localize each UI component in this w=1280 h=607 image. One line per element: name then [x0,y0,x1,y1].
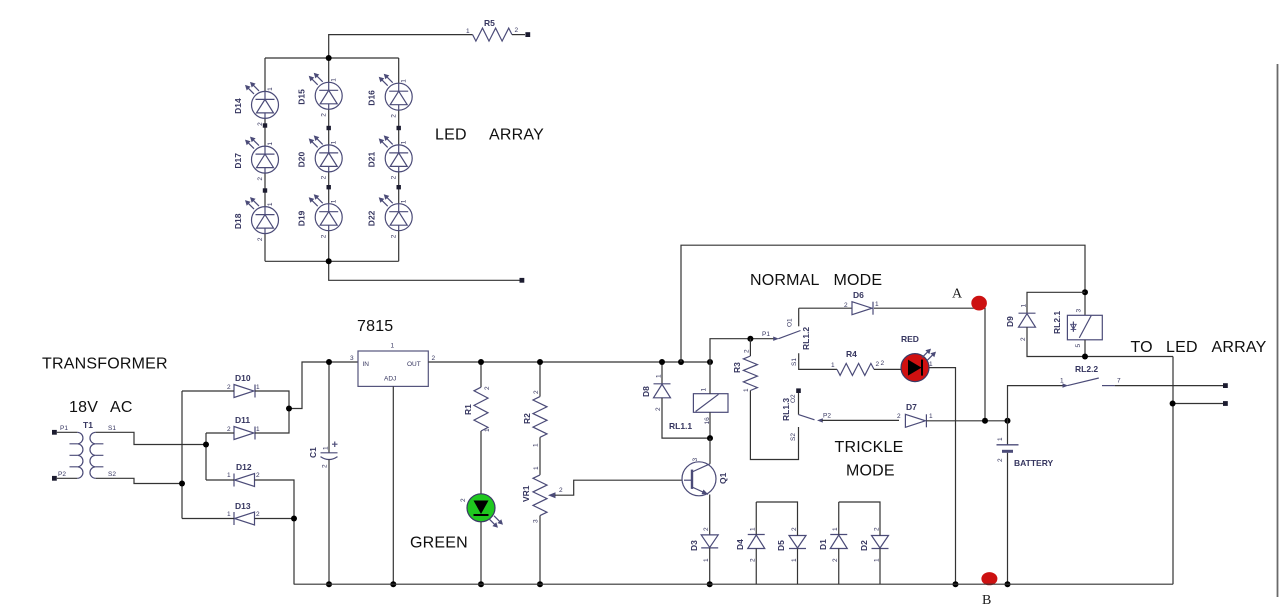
wire D12 pin1 [206,479,234,481]
svg-text:2: 2 [750,558,757,562]
svg-text:RL1.1: RL1.1 [669,421,692,431]
regulator U1 7815 [350,318,436,386]
svg-text:1: 1 [832,527,839,531]
wire D7 to battery junction [926,420,1007,422]
svg-text:Q1: Q1 [718,472,728,484]
svg-text:2: 2 [257,237,264,241]
wire 7815 OUT rail [428,361,710,363]
svg-text:D7: D7 [906,402,917,412]
resistor R5 [466,18,519,41]
wire bracket D1-D2 [839,502,880,536]
svg-text:D16: D16 [367,90,377,106]
svg-text:P2: P2 [58,471,66,478]
svg-text:2: 2 [321,234,328,238]
node array top [326,55,332,61]
wire R1 to GREEN LED [480,431,482,494]
wire P2 [57,477,77,479]
node RL2.1 bottom [1082,354,1088,360]
svg-text:D12: D12 [236,462,252,472]
diode D8 [641,374,671,411]
diode D13 [227,501,260,525]
LED D14 [233,82,279,126]
wire D10 pin1 to bridge + node [255,391,289,409]
svg-text:2: 2 [533,390,540,394]
svg-text:1: 1 [227,472,231,479]
diode D5 [776,527,806,562]
LED RED [881,334,937,382]
node battery ground [1005,581,1011,587]
wire RL1.1 node up to P1 [710,339,776,362]
svg-text:1: 1 [743,388,750,392]
svg-text:2: 2 [227,426,231,433]
LED D15 [297,73,343,117]
svg-text:VR1: VR1 [521,485,531,502]
wire D5 bottom to rail [797,549,799,585]
svg-text:RL2.2: RL2.2 [1075,364,1098,374]
svg-text:TOLEDARRAY: TOLEDARRAY [1131,339,1267,356]
svg-text:O1: O1 [787,318,794,327]
node ADJ ground [390,581,396,587]
svg-text:BATTERY: BATTERY [1014,458,1054,468]
wire battery junction up to RL2.2 [1008,386,1066,421]
node VR1 ground [537,581,543,587]
svg-text:R1: R1 [463,404,473,415]
svg-text:2: 2 [655,407,662,411]
svg-text:TRICKLE: TRICKLE [835,439,904,456]
wire rail node to D8 [661,362,663,384]
wire LED array bottom rail [265,260,399,262]
node battery-D7 junction [1005,418,1011,424]
svg-text:1: 1 [831,362,835,369]
svg-text:2: 2 [1020,337,1027,341]
svg-text:TRANSFORMER: TRANSFORMER [42,356,168,373]
svg-text:3: 3 [350,355,354,362]
svg-text:2: 2 [515,27,519,34]
svg-text:D11: D11 [235,415,250,425]
diode D3 [689,527,718,562]
wire GREEN LED to ground [480,522,482,584]
svg-text:D18: D18 [233,213,243,229]
node collector junction [707,435,713,441]
svg-text:2: 2 [460,498,467,502]
LED GREEN [460,494,503,528]
svg-text:D15: D15 [297,89,307,105]
wire RL1.1 pin1 [709,362,711,394]
svg-text:R4: R4 [846,349,857,359]
svg-text:1: 1 [267,202,274,206]
wire right return vertical [1172,357,1174,585]
svg-text:1: 1 [929,361,933,368]
svg-text:D10: D10 [235,373,251,383]
node bridge positive [286,406,292,412]
svg-text:P1: P1 [762,331,770,338]
resistor R4 [831,349,880,375]
wire D12 pin2 to bridge - node [255,480,295,519]
svg-text:1: 1 [656,374,663,378]
LED D22 [367,194,413,238]
svg-text:1: 1 [391,343,395,350]
wire D11 pin1 to bridge + node [255,409,289,434]
svg-text:3: 3 [692,458,699,462]
wire LED array left column [264,58,266,261]
svg-text:2: 2 [997,458,1004,462]
terminal LED array bottom [520,278,525,283]
node B red dot [981,572,997,585]
wire D9 top [1027,292,1085,313]
svg-text:3: 3 [1076,309,1083,313]
svg-text:1: 1 [256,426,260,433]
svg-text:1: 1 [331,140,338,144]
wire D8 bottom to collector node [662,398,710,438]
wire D13 pin1 [182,518,234,520]
terminal LED array feed top [1223,383,1228,388]
node lower terminal junction [1170,401,1176,407]
wire array top feed to R5 [329,35,473,58]
svg-text:2: 2 [832,558,839,562]
node normal-mode feed [678,359,684,365]
wire ground rail [294,583,1173,585]
svg-text:D9: D9 [1005,316,1015,327]
transformer T1 [58,420,116,478]
wire O1 to D6 [799,307,852,309]
node bridge negative [291,516,297,522]
wire array bottom feed to terminal [329,261,520,280]
diode D4 [735,527,765,562]
svg-text:2: 2 [257,177,264,181]
wire RL1.1 pin16 to collector node [709,412,711,438]
resistor R1 [463,362,491,432]
svg-text:D2: D2 [859,540,869,551]
svg-text:2: 2 [484,386,491,390]
wire RED LED down to ground rail [929,368,956,585]
wire bridge mid vertical (D11-D12) [205,433,207,480]
svg-text:2: 2 [703,527,710,531]
node D3 ground [707,581,713,587]
node RL1.1 top [707,359,713,365]
svg-text:D22: D22 [367,210,377,226]
svg-text:1: 1 [750,527,757,531]
svg-text:A: A [952,287,963,302]
wire LED array top rail [265,57,399,59]
LED D16 [367,74,413,118]
wire D11 pin2 [206,432,234,434]
svg-text:R2: R2 [522,413,532,424]
svg-text:P2: P2 [823,413,831,420]
wire D9 bottom rail to right [1027,327,1173,356]
wire D1 top to bracket [838,502,840,535]
svg-text:RL2.1: RL2.1 [1052,311,1062,334]
svg-text:NORMALMODE: NORMALMODE [750,272,882,289]
capacitor C1 [308,362,338,584]
svg-text:D19: D19 [297,210,307,226]
border right edge [1277,64,1279,597]
node R2 top [537,359,543,365]
svg-text:1: 1 [227,511,231,518]
svg-text:R3: R3 [732,362,742,373]
wire LED array right column [398,58,400,261]
svg-text:D21: D21 [367,152,377,168]
wire R5 to terminal [512,34,525,36]
svg-text:MODE: MODE [846,463,895,480]
node A-D7 junction [982,418,988,424]
wire R4 to RED LED [874,368,901,370]
diode D9 [1005,304,1036,342]
svg-text:D4: D4 [735,539,745,550]
svg-text:1: 1 [401,199,408,203]
wire LED array middle column [328,58,330,261]
svg-text:D13: D13 [235,501,251,511]
potentiometer VR1 [521,466,682,523]
svg-text:1: 1 [331,199,338,203]
LED D17 [233,137,279,181]
svg-text:2: 2 [881,360,885,367]
svg-text:P1: P1 [60,425,68,432]
svg-text:2: 2 [844,302,848,309]
svg-text:2: 2 [876,361,880,368]
LED D21 [367,135,413,179]
svg-text:D14: D14 [233,98,243,114]
LED D20 [297,135,343,179]
svg-text:1: 1 [331,78,338,82]
svg-text:2: 2 [391,175,398,179]
diode D2 [859,527,889,562]
svg-text:LEDARRAY: LEDARRAY [435,127,544,144]
svg-text:1: 1 [875,301,879,308]
resistor R3 [732,339,757,392]
svg-text:D8: D8 [641,386,651,397]
wire Q1 collector [709,438,711,464]
wire bridge + output to 7815 IN [289,362,358,409]
diode D7 [897,402,933,427]
terminal P2 [52,476,57,481]
node R3 top [747,336,753,342]
svg-text:T1: T1 [83,420,93,430]
battery BT1 [997,421,1054,584]
svg-text:7815: 7815 [357,318,393,335]
svg-text:2: 2 [256,472,260,479]
svg-text:2: 2 [391,234,398,238]
svg-text:2: 2 [559,487,563,494]
series junction squares of LED array [263,123,401,192]
wire bracket D4-D5 [756,502,797,536]
wire D3 to ground rail [709,548,711,584]
svg-text:5: 5 [1075,344,1082,348]
svg-text:3: 3 [533,519,540,523]
wire bridge left vertical (D10-D13) [181,391,183,519]
svg-text:18VAC: 18VAC [69,399,133,416]
svg-text:O2: O2 [790,394,797,403]
wire D4 bottom to rail [755,549,757,585]
svg-text:2: 2 [227,384,231,391]
svg-text:OUT: OUT [407,361,421,368]
node array bottom [326,258,332,264]
wire P1 [57,431,77,433]
svg-text:1: 1 [267,87,274,91]
wire normal mode top run [681,245,1085,362]
LED D18 [233,197,279,241]
wire D13 pin2 [255,518,295,520]
wire lower terminal [1173,403,1223,405]
wire bridge - output to ground rail [293,519,295,585]
svg-text:2: 2 [321,175,328,179]
svg-text:D3: D3 [689,540,699,551]
svg-text:2: 2 [744,349,751,353]
svg-text:D20: D20 [297,152,307,168]
svg-text:S1: S1 [108,425,116,432]
node S1 junction [203,442,209,448]
node D8 top [659,359,665,365]
wire R2 to VR1 [539,437,541,475]
node A red dot [971,296,987,311]
relay switch RL1.2 [762,308,837,369]
svg-text:1: 1 [533,466,540,470]
svg-text:D6: D6 [853,290,864,300]
svg-text:2: 2 [256,511,260,518]
svg-text:S1: S1 [791,358,798,366]
svg-text:2: 2 [322,464,329,468]
wire VR1 to ground [539,516,541,585]
wire RL2.1 pin5 [1084,340,1086,357]
node R1 branch ground [478,581,484,587]
svg-text:1: 1 [401,140,408,144]
svg-text:1: 1 [701,388,708,392]
svg-text:D17: D17 [233,153,243,169]
svg-text:GREEN: GREEN [410,535,468,552]
wire S1 to bridge [96,432,206,444]
node C1 bottom [326,581,332,587]
svg-text:2: 2 [897,413,901,420]
svg-text:2: 2 [321,113,328,117]
svg-text:RL1.2: RL1.2 [801,327,811,350]
svg-text:1: 1 [1060,378,1064,385]
svg-text:1: 1 [533,443,540,447]
svg-text:1: 1 [323,446,330,450]
svg-text:1: 1 [256,384,260,391]
svg-text:1: 1 [401,79,408,83]
terminal R5 output [525,32,530,37]
node RL2.1 top [1082,289,1088,295]
svg-text:S2: S2 [108,471,116,478]
node S2 junction [179,481,185,487]
relay switch RL2.2 [1060,364,1121,388]
svg-text:B: B [982,593,991,607]
diode D11 [227,415,260,440]
node RED ground [953,581,959,587]
svg-text:1: 1 [466,28,470,35]
resistor R2 [522,362,547,447]
svg-text:1: 1 [484,428,491,432]
node R1 top [478,359,484,365]
svg-text:S2: S2 [790,433,797,441]
node C1 top [326,359,332,365]
terminal P1 [52,430,57,435]
diode D10 [227,373,260,398]
wire 7815 ADJ to ground [392,386,394,584]
svg-text:R5: R5 [484,18,495,28]
wire Q1 emitter to D3 [709,495,711,535]
svg-text:D1: D1 [818,539,828,550]
wire RL2.2 to terminal [1115,385,1223,387]
svg-text:1: 1 [929,413,933,420]
svg-text:2: 2 [432,355,436,362]
relay coil RL1.1 [669,388,728,432]
svg-text:2: 2 [391,114,398,118]
svg-text:IN: IN [363,361,370,368]
svg-text:ADJ: ADJ [384,376,396,383]
diode D6 [844,290,879,315]
svg-text:1: 1 [1021,304,1028,308]
svg-text:C1: C1 [308,447,318,458]
wire D1 bottom to rail [838,549,840,585]
svg-text:1: 1 [703,558,710,562]
svg-text:D5: D5 [776,540,786,551]
diode D12 [227,462,260,487]
svg-text:1: 1 [267,142,274,146]
transistor Q1 [682,458,728,496]
wire D2 bottom to rail [879,549,881,585]
svg-text:1: 1 [997,437,1004,441]
relay switch RL1.3 [781,388,899,441]
LED D19 [297,194,343,238]
wire D10 pin2 to left rail [182,390,234,392]
diode D1 [818,527,847,562]
wire D4 top to bracket [755,502,757,535]
svg-text:RED: RED [901,334,919,344]
wire S2 to bridge [96,478,182,483]
svg-text:7: 7 [1117,378,1121,385]
terminal LED array feed bottom [1223,401,1228,406]
wire D6 to node A and down [874,308,985,421]
relay coil RL2.1 [1052,309,1102,348]
wire R3 bottom to S2 [750,391,798,460]
